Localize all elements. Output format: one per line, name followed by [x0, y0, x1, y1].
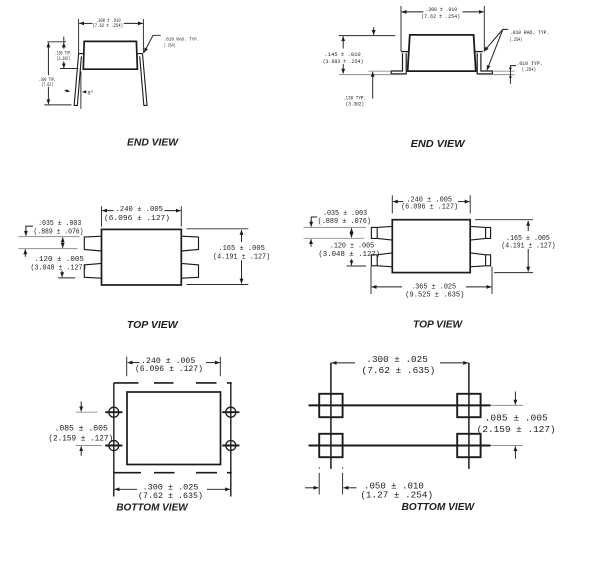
- dimension .120 extension line and arrow (left top view): [58, 277, 75, 279]
- svg-text:.035 ± .003: .035 ± .003: [323, 210, 367, 218]
- pin target circle bottom-left: [105, 441, 122, 451]
- solder pad bottom-right: [457, 434, 480, 457]
- dimension .035 extension lines (right top view): [304, 226, 367, 228]
- svg-text:(7.62 ± .635): (7.62 ± .635): [362, 365, 436, 376]
- svg-text:(6.096 ± .127): (6.096 ± .127): [135, 364, 203, 374]
- dimension .035 leader bracket and outside arrows: [26, 226, 33, 233]
- dashed pad-area outline top edge: [114, 382, 232, 384]
- svg-text:TOP VIEW: TOP VIEW: [127, 320, 179, 331]
- dimension .035 inner arrows: [62, 237, 64, 243]
- left edge line through pin centers: [113, 383, 115, 497]
- right gull-wing lead (right end view): [474, 51, 482, 53]
- svg-text:(4.191 ± .127): (4.191 ± .127): [501, 243, 555, 251]
- upper-right gull lead (right top view): [470, 226, 490, 240]
- pin target circle bottom-right: [222, 441, 239, 451]
- svg-text:(3.683 ± .254): (3.683 ± .254): [323, 59, 364, 65]
- lower-left lead (left top view): [84, 263, 101, 278]
- dimension .300 dimension line (left bottom view): [115, 488, 137, 490]
- svg-text:(.889 ± .076): (.889 ± .076): [34, 229, 84, 237]
- dimension .120 inner arrows (right top view): [351, 228, 353, 233]
- package body (right end view): [408, 35, 476, 71]
- svg-text:END VIEW: END VIEW: [411, 139, 466, 150]
- dimension .240 dimension line (left top view): [102, 210, 113, 212]
- svg-text:.120 ± .005: .120 ± .005: [35, 256, 84, 264]
- svg-text:.010 RAD. TYP.: .010 RAD. TYP.: [164, 36, 200, 42]
- left gull-wing lead (right end view): [401, 51, 409, 53]
- dimension .300 +-.010 dimension line (left end view): [79, 22, 92, 24]
- left lead 5-degree splay (left end view): [74, 54, 81, 106]
- svg-text:(6.096 ± .127): (6.096 ± .127): [401, 204, 458, 212]
- leader .010 RAD. TYP. (left end view): [144, 35, 161, 52]
- solder pad bottom-left: [319, 434, 342, 457]
- svg-text:BOTTOM VIEW: BOTTOM VIEW: [116, 503, 188, 514]
- dimension .165 arrows (right top view): [527, 221, 529, 231]
- dimension .300 +-.010 extension lines (left end view): [78, 19, 80, 53]
- svg-text:(3.302): (3.302): [57, 56, 71, 62]
- dimension .035 extension lines (left top view): [18, 236, 79, 238]
- upper-left lead (left top view): [84, 236, 101, 251]
- pad row line 1: [309, 404, 491, 406]
- package body (left top view): [102, 229, 182, 285]
- dimension .300 +-.010 dimension line (right end view): [402, 11, 424, 13]
- lower-right gull lead (right top view): [470, 253, 490, 267]
- svg-text:.365 ± .025: .365 ± .025: [411, 283, 456, 291]
- dimension .240 extension ticks (left bottom view): [126, 357, 128, 376]
- left lead shoulder (left end view): [78, 53, 84, 55]
- dimension .365 extension lines (right top view): [370, 267, 372, 295]
- lower-left gull lead (right top view): [371, 253, 392, 267]
- svg-text:(.889 ± .076): (.889 ± .076): [318, 218, 371, 226]
- right lead shoulder (left end view): [136, 53, 142, 55]
- 5 degree angle arrows: [83, 91, 87, 93]
- dimension .240 extension lines (left top view): [101, 206, 103, 226]
- package body (left end view): [83, 41, 137, 69]
- pin target circle top-left: [105, 407, 122, 417]
- upper-left gull lead (right top view): [371, 226, 392, 240]
- dashed pad-area outline bottom edge: [114, 472, 232, 474]
- dimension .240 dimension line (left bottom view): [128, 362, 140, 364]
- right edge line through pin centers: [230, 383, 232, 497]
- dimension .085 extension lines (left bottom view): [76, 411, 98, 413]
- svg-text:.085 ± .005: .085 ± .005: [54, 425, 107, 434]
- dimension .145 +-.010 extension line: [339, 35, 396, 37]
- solder pad top-right: [457, 394, 480, 417]
- seating plane reference lines: [368, 70, 391, 72]
- dimension .300 dimension line (right bottom view): [332, 362, 355, 364]
- svg-text:.130 TYP.: .130 TYP.: [343, 95, 366, 101]
- 5 degree reference line: [80, 72, 82, 109]
- dimension .120 extension line (right top view): [347, 265, 366, 267]
- svg-text:(9.525 ± .635): (9.525 ± .635): [405, 291, 464, 299]
- svg-text:(.254): (.254): [522, 67, 536, 73]
- svg-text:(3.302): (3.302): [346, 102, 365, 108]
- svg-text:(7.62 ± .254): (7.62 ± .254): [421, 14, 460, 20]
- pad row line 2: [309, 445, 491, 447]
- svg-text:(3.048 ± .127): (3.048 ± .127): [31, 265, 87, 273]
- svg-text:.035 ± .003: .035 ± .003: [38, 220, 81, 228]
- right lead 5-degree splay (left end view): [140, 54, 147, 106]
- dimension .165 extension lines (right top view): [475, 219, 533, 221]
- dimension .165 extension lines (left top view): [187, 228, 249, 230]
- svg-text:(2.159 ± .127): (2.159 ± .127): [477, 424, 556, 435]
- dimension .300 +-.010 extension lines (right end view): [400, 6, 402, 51]
- dimension .085 outside arrows (right bottom view): [514, 392, 516, 405]
- dimension .300 TYP. bottom extension line: [44, 104, 71, 106]
- svg-text:(2.159 ± .127): (2.159 ± .127): [48, 434, 113, 444]
- svg-text:(.254): (.254): [510, 37, 522, 43]
- pin target circle top-right: [222, 407, 239, 417]
- dimension .130 TYP. arrows (right end view): [373, 27, 375, 35]
- svg-text:END VIEW: END VIEW: [127, 138, 179, 149]
- svg-text:.165 ± .005: .165 ± .005: [218, 245, 265, 253]
- left column center line: [330, 363, 332, 469]
- upper-right lead (left top view): [181, 236, 198, 251]
- dimension .050 outside arrows (right bottom view): [305, 487, 319, 489]
- lower-right lead (left top view): [181, 263, 198, 278]
- row extension lines for .085 (right bottom view): [491, 404, 524, 406]
- svg-text:.010 RAD. TYP.: .010 RAD. TYP.: [510, 30, 550, 36]
- dimension .165 arrows (left top view): [241, 230, 243, 242]
- dimension .085 outside arrows (left bottom view): [80, 401, 82, 411]
- svg-text:.085 ± .005: .085 ± .005: [485, 412, 548, 423]
- svg-text:.145 ± .010: .145 ± .010: [324, 52, 360, 58]
- dimension .050 extension ticks (right bottom view): [318, 467, 320, 494]
- svg-text:(.254): (.254): [164, 42, 176, 48]
- dimension .035 leader bracket and outside arrows (right top view): [311, 217, 317, 223]
- svg-text:BOTTOM VIEW: BOTTOM VIEW: [401, 502, 475, 513]
- dimension .365 dimension line (right top view): [372, 286, 402, 288]
- svg-text:(6.096 ± .127): (6.096 ± .127): [104, 215, 170, 223]
- dimension .010 TYP. leader and arrows: [510, 66, 516, 84]
- package body (right top view): [392, 220, 470, 273]
- svg-text:(7.62 ± .254): (7.62 ± .254): [92, 23, 123, 29]
- svg-text:.300 ± .010: .300 ± .010: [425, 7, 457, 13]
- svg-text:(3.048 ± .127): (3.048 ± .127): [318, 251, 380, 259]
- right column center line: [468, 363, 470, 469]
- svg-text:(1.27 ± .254): (1.27 ± .254): [360, 489, 433, 500]
- dimension .130 TYP. extension lines (left end view): [47, 41, 66, 43]
- svg-text:.300 ± .025: .300 ± .025: [366, 354, 428, 365]
- dimension .300 TYP. arrows (lead length, left end view): [47, 43, 49, 76]
- svg-text:TOP VIEW: TOP VIEW: [413, 320, 463, 331]
- svg-text:.240 ± .005: .240 ± .005: [116, 206, 163, 214]
- package outline (left bottom view): [127, 392, 221, 465]
- dimension .145 +-.010 arrows: [342, 36, 344, 48]
- svg-text:(4.191 ± .127): (4.191 ± .127): [213, 254, 270, 262]
- svg-text:(7.62): (7.62): [41, 82, 53, 88]
- svg-text:.120 ± .005: .120 ± .005: [330, 243, 374, 251]
- svg-text:5°: 5°: [87, 91, 93, 97]
- solder pad top-left: [319, 394, 342, 417]
- leader .010 RAD. TYP. (right end view): [484, 29, 508, 51]
- svg-text:(7.62 ± .635): (7.62 ± .635): [138, 491, 203, 501]
- dimension .130 TYP. arrows: [63, 37, 65, 42]
- dimension .240 extension lines (right top view): [391, 195, 393, 213]
- dimension .240 dimension line (right top view): [393, 201, 404, 203]
